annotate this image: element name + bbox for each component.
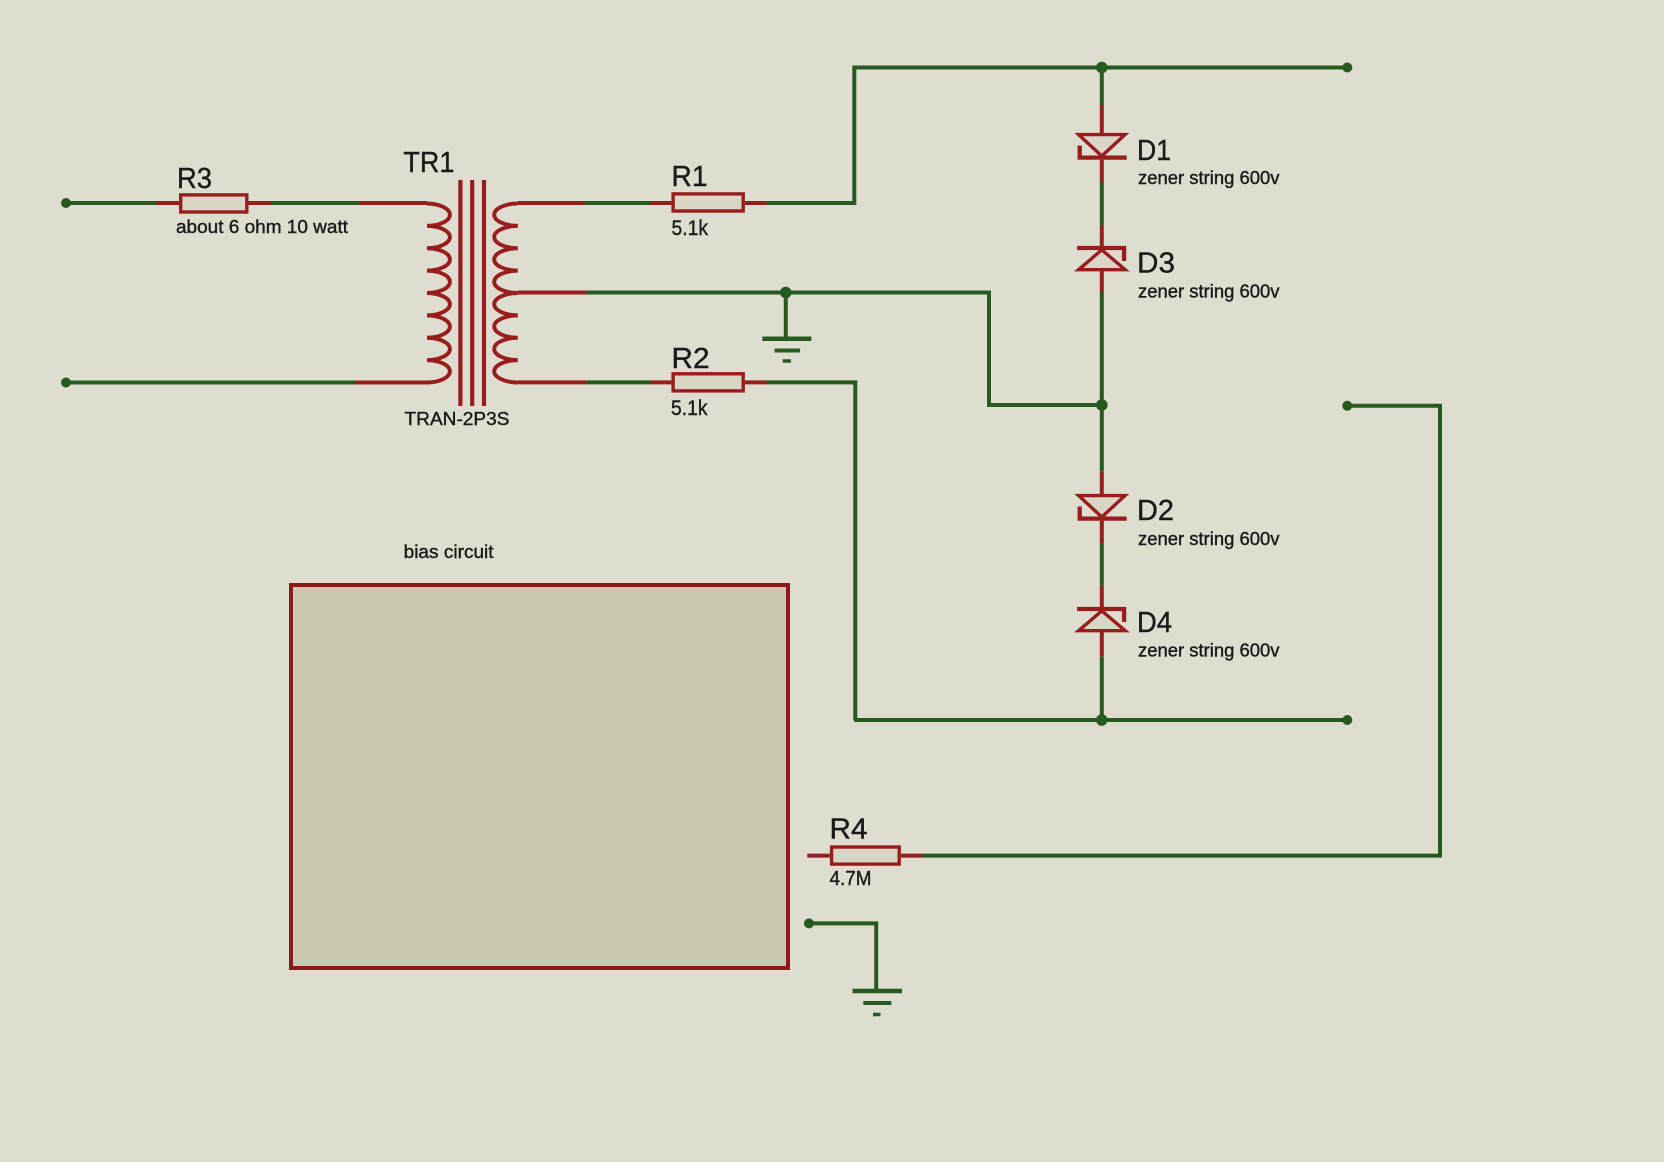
svg-text:R1: R1 (672, 161, 708, 193)
svg-text:TRAN-2P3S: TRAN-2P3S (405, 409, 510, 429)
svg-text:bias circuit: bias circuit (404, 542, 494, 562)
svg-text:R2: R2 (672, 343, 710, 375)
svg-text:5.1k: 5.1k (671, 397, 708, 420)
svg-text:D2: D2 (1137, 495, 1174, 527)
svg-text:R3: R3 (177, 163, 212, 195)
svg-text:4.7M: 4.7M (830, 868, 872, 890)
svg-text:TR1: TR1 (403, 147, 454, 179)
svg-text:D1: D1 (1137, 135, 1171, 167)
svg-text:about 6 ohm 10 watt: about 6 ohm 10 watt (176, 217, 348, 237)
svg-text:zener string 600v: zener string 600v (1138, 641, 1280, 661)
svg-text:5.1k: 5.1k (672, 217, 709, 240)
svg-text:zener string 600v: zener string 600v (1138, 529, 1280, 549)
svg-text:D3: D3 (1137, 248, 1175, 280)
svg-text:zener string 600v: zener string 600v (1138, 282, 1280, 302)
svg-text:zener string 600v: zener string 600v (1138, 168, 1280, 188)
svg-text:R4: R4 (830, 814, 868, 846)
svg-text:D4: D4 (1137, 607, 1172, 639)
